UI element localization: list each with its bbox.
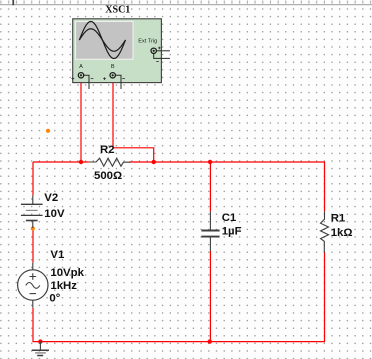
svg-text:10V: 10V — [44, 208, 65, 220]
svg-text:1kHz: 1kHz — [50, 280, 77, 292]
svg-text:R2: R2 — [100, 144, 115, 156]
svg-text:XSC1: XSC1 — [105, 4, 130, 15]
svg-text:500Ω: 500Ω — [94, 170, 122, 182]
svg-text:B: B — [111, 64, 115, 70]
svg-text:1µF: 1µF — [222, 226, 242, 238]
svg-text:A: A — [79, 64, 83, 70]
svg-text:V2: V2 — [44, 192, 58, 204]
svg-text:V1: V1 — [50, 249, 65, 261]
svg-text:1kΩ: 1kΩ — [331, 227, 353, 239]
svg-text:Ext Trig: Ext Trig — [138, 38, 157, 44]
svg-text:R1: R1 — [331, 212, 346, 224]
svg-text:10Vpk: 10Vpk — [50, 267, 84, 279]
svg-text:C1: C1 — [222, 212, 237, 224]
svg-text:0°: 0° — [49, 293, 60, 305]
